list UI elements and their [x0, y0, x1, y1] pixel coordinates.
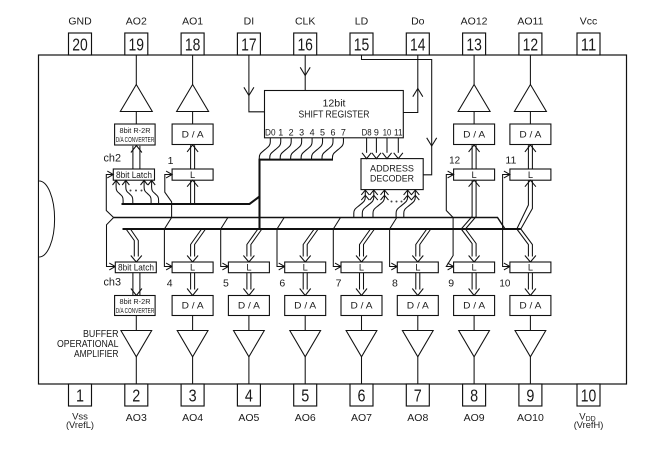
- svg-text:ch2: ch2: [104, 153, 122, 165]
- 8bit latch ch2 box: [113, 169, 154, 180]
- arrow ch9 latch to D/A: [469, 289, 480, 296]
- op-amp buffer ch7 triangle: [346, 331, 377, 357]
- select bus horizontal segment: [114, 218, 505, 230]
- select wire ch1 latch: [165, 175, 172, 218]
- D/A converter ch11 box: [510, 124, 551, 145]
- svg-text:D / A: D / A: [519, 130, 542, 140]
- wire amp to pin7 AO8: [417, 357, 419, 384]
- wire shift register D6 to data bus: [322, 138, 333, 160]
- op-amp buffer ch9 triangle: [459, 331, 490, 357]
- arrow on DI wire: [244, 87, 254, 95]
- svg-text:8bit Latch: 8bit Latch: [116, 170, 152, 180]
- svg-text:AO5: AO5: [238, 412, 259, 424]
- arrow data into ch5 latch: [243, 256, 254, 263]
- bus data bus to ch1 latch: [190, 181, 192, 204]
- svg-text:6: 6: [279, 278, 285, 290]
- data bus vertical segment: [258, 159, 260, 229]
- pin 15 box: [350, 33, 373, 55]
- double chevron into decoder 1: [361, 190, 369, 195]
- wire pin18 AO1 to buffer amp: [192, 55, 194, 85]
- arrow select ch11 latch: [504, 171, 510, 178]
- svg-text:8bit R-2R: 8bit R-2R: [120, 297, 151, 306]
- IC pin-1 notch semicircle: [39, 181, 54, 257]
- svg-text:L: L: [359, 263, 364, 273]
- latch L ch4 box: [172, 262, 213, 273]
- shift register U1 box: [265, 91, 404, 138]
- arrow data into ch1 latch: [187, 180, 198, 187]
- latch L ch11 box: [510, 169, 551, 180]
- double chevron into decoder 4: [404, 190, 412, 195]
- bus ch2 latch to R-2R converter: [132, 146, 134, 169]
- svg-text:8bit R-2R: 8bit R-2R: [120, 126, 151, 135]
- svg-text:GND: GND: [68, 16, 92, 28]
- select wire ch4 latch: [164, 218, 172, 267]
- svg-text:D / A: D / A: [182, 301, 205, 311]
- latch L ch5 box: [228, 262, 269, 273]
- arrow data into ch3 latch: [131, 256, 142, 263]
- svg-text:Do: Do: [411, 16, 425, 28]
- bus data bus to ch10 latch: [517, 229, 529, 257]
- ellipsis under address decoder: [391, 201, 403, 203]
- svg-text:L: L: [246, 263, 251, 273]
- arrow select ch8 latch: [391, 263, 397, 270]
- svg-text:1: 1: [76, 385, 84, 405]
- svg-text:1: 1: [168, 155, 174, 167]
- double chevron into decoder 3: [381, 190, 389, 195]
- op-amp buffer A3 triangle: [121, 331, 152, 357]
- bus data bus to ch12 latch: [461, 181, 472, 229]
- pin 7 box: [406, 384, 429, 406]
- D/A converter ch5 box: [228, 296, 269, 316]
- ellipsis ch2 latch inputs: [130, 190, 143, 192]
- wire amp to pin9 AO10: [529, 357, 531, 384]
- svg-text:CLK: CLK: [295, 16, 315, 28]
- svg-text:D / A: D / A: [351, 301, 374, 311]
- svg-text:2: 2: [132, 385, 140, 405]
- svg-text:7: 7: [336, 278, 342, 290]
- pin 12 box: [519, 33, 542, 55]
- 8bit latch ch3 box: [115, 262, 156, 273]
- wire R-2R ch3 to buffer amp: [135, 316, 137, 331]
- bus ch5 latch to D/A: [246, 273, 248, 290]
- svg-text:3: 3: [299, 127, 304, 137]
- op-amp buffer ch8 triangle: [402, 331, 433, 357]
- bus ch11 latch to D/A: [527, 145, 529, 169]
- bus data bus to ch7 latch: [360, 229, 371, 257]
- D/A converter ch10 box: [510, 296, 551, 316]
- data bus lower horizontal segment: [123, 228, 521, 230]
- arrow data into ch10 latch: [525, 256, 536, 263]
- pin 20 box: [69, 33, 92, 55]
- svg-text:9: 9: [526, 385, 534, 405]
- svg-text:D / A: D / A: [238, 301, 261, 311]
- bus data bus to ch5 latch: [247, 229, 258, 257]
- op-amp buffer ch6 triangle: [290, 331, 321, 357]
- latch L ch1 box: [172, 169, 213, 180]
- svg-text:DI: DI: [244, 16, 255, 28]
- arrow ch12 latch to D/A: [469, 145, 480, 152]
- svg-text:9: 9: [448, 278, 454, 290]
- svg-text:11: 11: [505, 155, 516, 167]
- select wire ch12 and ch9 zigzag: [446, 175, 453, 267]
- select wire ch7 latch: [333, 218, 341, 267]
- svg-text:10: 10: [499, 278, 510, 290]
- wire amp A11 to D/A: [529, 112, 531, 125]
- bus data bus to ch9 latch: [461, 229, 472, 257]
- wire shift register 10 to address decoder: [386, 138, 388, 153]
- arrow data into ch12 latch: [469, 180, 480, 187]
- svg-text:L: L: [528, 263, 533, 273]
- svg-text:5: 5: [301, 385, 309, 405]
- pin 2 box: [125, 384, 148, 406]
- double chevron into decoder 5: [411, 190, 419, 195]
- bus ch10 latch to D/A: [527, 273, 529, 290]
- svg-text:LD: LD: [355, 16, 369, 28]
- arrow ch8 latch to D/A: [412, 289, 423, 296]
- D/A converter ch12 box: [454, 124, 495, 145]
- select wire ch6 latch: [277, 218, 285, 267]
- bus data bus to ch3 latch: [126, 229, 134, 257]
- arrow into ch2 latch: [122, 180, 129, 185]
- wire amp to pin3 AO4: [192, 357, 194, 384]
- D/A converter ch4 box: [172, 296, 213, 316]
- op-amp buffer ch5 triangle: [234, 331, 265, 357]
- arrow 9 into decoder: [372, 153, 381, 159]
- op-amp buffer A11 triangle: [514, 85, 546, 112]
- svg-text:5: 5: [223, 278, 229, 290]
- svg-text:3: 3: [189, 385, 197, 405]
- svg-text:D / A: D / A: [407, 301, 430, 311]
- svg-text:13: 13: [466, 34, 482, 54]
- wire D/A ch8 to buffer amp: [417, 316, 419, 331]
- svg-text:6: 6: [358, 385, 366, 405]
- svg-text:L: L: [190, 263, 195, 273]
- pin 3 box: [181, 384, 204, 406]
- latch L ch7 box: [341, 262, 382, 273]
- svg-text:AO7: AO7: [351, 412, 372, 424]
- svg-text:L: L: [528, 170, 533, 180]
- svg-text:19: 19: [129, 34, 145, 54]
- svg-text:D / A: D / A: [463, 130, 486, 140]
- svg-text:6: 6: [331, 127, 336, 137]
- wire address decoder select line 4: [396, 190, 408, 218]
- svg-text:D / A: D / A: [182, 130, 205, 140]
- pin 4 box: [237, 384, 260, 406]
- svg-text:4: 4: [167, 278, 173, 290]
- wire shift register D0 to data bus: [259, 138, 270, 160]
- select wire ch11 and ch10: [503, 175, 510, 267]
- op-amp buffer ch4 triangle: [177, 331, 208, 357]
- wire D/A ch10 to buffer amp: [529, 316, 531, 331]
- bus ch4 latch to D/A: [190, 273, 192, 290]
- svg-text:D/A CONVERTER: D/A CONVERTER: [116, 135, 155, 144]
- arrow select ch4 latch: [166, 263, 172, 270]
- svg-text:AO4: AO4: [182, 412, 203, 424]
- wire amp A2 to R-2R converter: [135, 112, 137, 125]
- latch L ch12 box: [454, 169, 495, 180]
- svg-text:AO10: AO10: [517, 412, 544, 424]
- wire data bus to ch2 latch: [152, 181, 159, 205]
- op-amp buffer ch10 triangle: [515, 331, 546, 357]
- arrow ch11 latch to D/A: [525, 145, 536, 152]
- svg-text:10: 10: [581, 385, 597, 405]
- wire amp to pin5 AO6: [304, 357, 306, 384]
- wire Do shift register to pin14: [403, 55, 418, 113]
- wire amp to pin6 AO7: [361, 357, 363, 384]
- arrow on CLK wire: [300, 67, 310, 75]
- svg-text:16: 16: [297, 34, 313, 54]
- bus data bus to ch6 latch: [303, 229, 314, 257]
- arrow select ch7 latch: [335, 263, 341, 270]
- bus ch8 latch to D/A: [415, 273, 417, 290]
- arrow data into ch11 latch: [525, 180, 536, 187]
- wire amp A3 to pin2: [135, 357, 137, 384]
- svg-text:11: 11: [394, 127, 403, 137]
- op-amp buffer A1 triangle: [177, 85, 209, 112]
- svg-text:L: L: [472, 263, 477, 273]
- pin 19 box: [125, 33, 148, 55]
- svg-text:1: 1: [278, 127, 283, 137]
- svg-text:D8: D8: [362, 127, 372, 137]
- wire D/A ch9 to buffer amp: [473, 316, 475, 331]
- op-amp buffer A12 triangle: [458, 85, 490, 112]
- svg-text:8: 8: [470, 385, 478, 405]
- svg-text:18: 18: [185, 34, 201, 54]
- D/A converter ch7 box: [341, 296, 382, 316]
- arrow into ch2 latch: [141, 180, 148, 185]
- pin 1 box: [69, 384, 92, 406]
- arrow select ch12 latch: [448, 171, 454, 178]
- svg-text:14: 14: [410, 34, 426, 54]
- wire shift register D1 to data bus: [270, 138, 281, 160]
- pin 14 box: [406, 33, 429, 55]
- wire address decoder select line 5: [404, 190, 416, 218]
- wire amp to pin8 AO9: [473, 357, 475, 384]
- arrow data into ch9 latch: [469, 256, 480, 263]
- svg-text:4: 4: [245, 385, 253, 405]
- wire data bus to ch2 latch: [144, 181, 151, 205]
- arrow ch6 latch to D/A: [300, 289, 311, 296]
- double chevron into decoder 2: [370, 190, 378, 195]
- pin 17 box: [237, 33, 260, 55]
- svg-text:AMPLIFIER: AMPLIFIER: [74, 349, 119, 360]
- wire amp A12 to D/A: [473, 112, 475, 125]
- svg-text:20: 20: [72, 34, 88, 54]
- wire shift register D4 to data bus: [301, 138, 312, 160]
- arrow D8 into decoder: [362, 153, 371, 159]
- D/A converter ch6 box: [285, 296, 326, 316]
- svg-text:AO9: AO9: [464, 412, 485, 424]
- bus ch7 latch to D/A: [359, 273, 361, 290]
- D/A converter ch8 box: [397, 296, 438, 316]
- svg-text:D / A: D / A: [294, 301, 317, 311]
- 8bit R-2R D/A converter ch3 box: [115, 296, 156, 316]
- wire D/A ch6 to buffer amp: [304, 316, 306, 331]
- svg-text:SHIFT REGISTER: SHIFT REGISTER: [299, 110, 370, 121]
- arrow ch1 latch to D/A: [187, 145, 198, 152]
- wire pin12 AO11 to buffer amp: [529, 55, 531, 85]
- bus data bus to ch8 latch: [416, 229, 427, 257]
- IC package outline: [39, 55, 627, 384]
- bus ch3 latch to R-2R: [132, 273, 134, 295]
- pin 13 box: [463, 33, 486, 55]
- wire amp to pin4 AO5: [248, 357, 250, 384]
- svg-text:L: L: [190, 170, 195, 180]
- wire pin13 AO12 to buffer amp: [473, 55, 475, 85]
- pin 10 box: [577, 384, 600, 406]
- pin 18 box: [181, 33, 204, 55]
- svg-text:AO3: AO3: [126, 412, 147, 424]
- svg-text:11: 11: [581, 34, 597, 54]
- bus ch12 latch to D/A: [471, 145, 473, 169]
- arrow select ch6 latch: [279, 263, 285, 270]
- select wire into ch3 latch: [107, 218, 116, 267]
- wire shift register 9 to address decoder: [375, 138, 377, 153]
- svg-text:D / A: D / A: [463, 301, 486, 311]
- svg-text:L: L: [303, 263, 308, 273]
- D/A converter ch9 box: [454, 296, 495, 316]
- svg-text:D / A: D / A: [519, 301, 542, 311]
- arrow select ch10 latch: [504, 263, 510, 270]
- pin 5 box: [294, 384, 317, 406]
- wire shift register D2 to data bus: [280, 138, 291, 160]
- svg-text:(VrefL): (VrefL): [66, 420, 94, 430]
- select wire into ch2 latch: [106, 175, 113, 218]
- wire data bus to ch2 latch: [126, 181, 133, 205]
- wire address decoder select line 1: [354, 190, 366, 218]
- svg-text:Vcc: Vcc: [580, 16, 598, 28]
- svg-text:17: 17: [241, 34, 257, 54]
- svg-text:(VrefH): (VrefH): [574, 420, 604, 430]
- arrow select ch9 latch: [448, 263, 454, 270]
- data bus collect segment: [260, 159, 334, 161]
- svg-text:AO12: AO12: [461, 16, 488, 28]
- wire address decoder select line 2: [362, 190, 374, 218]
- pin 9 box: [519, 384, 542, 406]
- bus ch1 latch to D/A: [190, 145, 192, 169]
- svg-text:2: 2: [289, 127, 294, 137]
- svg-text:L: L: [472, 170, 477, 180]
- 8bit R-2R D/A converter ch2 box: [115, 124, 156, 145]
- wire DI pin17 to shift register: [249, 55, 265, 112]
- wire shift register D7 to data bus: [332, 138, 343, 160]
- svg-text:L: L: [415, 263, 420, 273]
- svg-text:8bit Latch: 8bit Latch: [118, 263, 154, 273]
- wire D/A ch7 to buffer amp: [361, 316, 363, 331]
- arrow data into ch4 latch: [187, 256, 198, 263]
- arrow into ch2 latch: [113, 180, 120, 185]
- svg-text:15: 15: [354, 34, 370, 54]
- svg-text:7: 7: [341, 127, 346, 137]
- svg-text:ch3: ch3: [104, 277, 122, 289]
- arrow on Do wire: [413, 89, 423, 97]
- pin 8 box: [463, 384, 486, 406]
- data bus upper horizontal segment: [122, 197, 260, 205]
- svg-text:5: 5: [320, 127, 325, 137]
- bus data bus to ch11 latch: [517, 181, 529, 229]
- svg-text:12bit: 12bit: [323, 99, 346, 110]
- arrow ch10 latch to D/A: [525, 289, 536, 296]
- svg-text:D/A CONVERTER: D/A CONVERTER: [116, 306, 155, 315]
- svg-text:7: 7: [414, 385, 422, 405]
- wire address decoder select line 3: [373, 190, 385, 218]
- bus ch9 latch to D/A: [471, 273, 473, 290]
- arrow 10 into decoder: [382, 153, 391, 159]
- pin 11 box: [577, 33, 600, 55]
- D/A converter ch1 box: [172, 124, 213, 145]
- select wire ch8 latch: [390, 218, 398, 267]
- svg-text:DECODER: DECODER: [370, 174, 414, 185]
- bus ch6 latch to D/A: [302, 273, 304, 290]
- arrow select ch5 latch: [222, 263, 228, 270]
- arrow data into ch7 latch: [356, 256, 367, 263]
- latch L ch9 box: [454, 262, 495, 273]
- svg-text:AO8: AO8: [407, 412, 428, 424]
- wire D/A ch4 to buffer amp: [192, 316, 194, 331]
- arrow on LD wire: [427, 138, 437, 146]
- svg-text:4: 4: [310, 127, 315, 137]
- wire data bus to ch2 latch: [116, 181, 123, 205]
- wire D/A ch5 to buffer amp: [248, 316, 250, 331]
- latch L ch8 box: [397, 262, 438, 273]
- latch L ch6 box: [285, 262, 326, 273]
- svg-text:AO2: AO2: [126, 16, 147, 28]
- arrow ch4 latch to D/A: [187, 289, 198, 296]
- arrow data into ch8 latch: [412, 256, 423, 263]
- arrow ch2 latch to R-2R: [131, 146, 142, 153]
- svg-text:D0: D0: [265, 127, 276, 137]
- op-amp buffer A2 triangle: [120, 85, 152, 112]
- wire shift register D5 to data bus: [312, 138, 323, 160]
- pin 16 box: [294, 33, 317, 55]
- svg-text:AO1: AO1: [182, 16, 203, 28]
- wire shift register D3 to data bus: [291, 138, 302, 160]
- arrow data into ch6 latch: [300, 256, 311, 263]
- svg-text:10: 10: [383, 127, 392, 137]
- svg-text:8: 8: [392, 278, 398, 290]
- arrow select ch3 latch: [109, 263, 115, 270]
- select wire ch5 latch: [221, 218, 229, 267]
- svg-text:9: 9: [374, 127, 379, 137]
- svg-text:12: 12: [523, 34, 539, 54]
- wire amp A1 to D/A: [192, 112, 194, 125]
- arrow select ch1 latch: [166, 171, 172, 178]
- bus data bus to ch4 latch: [191, 229, 202, 257]
- wire shift register D8 to address decoder: [366, 138, 368, 153]
- pin 6 box: [350, 384, 373, 406]
- arrow 11 into decoder: [394, 153, 403, 159]
- address decoder U2 box: [361, 159, 423, 190]
- arrow ch7 latch to D/A: [356, 289, 367, 296]
- svg-text:AO6: AO6: [295, 412, 316, 424]
- arrow into ch2 latch: [148, 180, 155, 185]
- svg-text:12: 12: [449, 155, 460, 167]
- wire LD pin15 to address decoder: [362, 55, 432, 175]
- arrow ch3 latch to R-2R: [131, 289, 142, 296]
- arrow select ch2 latch: [107, 171, 113, 178]
- wire shift register 11 to address decoder: [397, 138, 399, 153]
- latch L ch10 box: [510, 262, 551, 273]
- svg-text:AO11: AO11: [517, 16, 543, 28]
- wire CLK pin16 to shift register: [304, 55, 306, 91]
- arrow ch5 latch to D/A: [243, 289, 254, 296]
- wire pin19 AO2 to buffer amp: [135, 55, 137, 85]
